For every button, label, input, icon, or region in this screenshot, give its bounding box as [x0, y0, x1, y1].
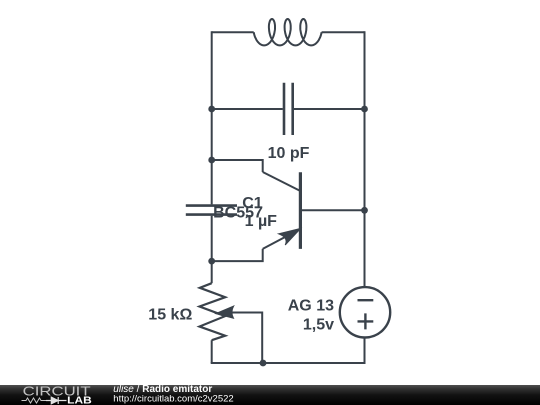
- battery minus sign: [358, 299, 374, 301]
- svg-text:10 pF: 10 pF: [268, 145, 310, 162]
- wire emitter to left rail: [212, 249, 263, 261]
- node dot base: [361, 207, 368, 214]
- logo resistor zigzag: [22, 398, 47, 403]
- wire top-left: from inductor left to left rail: [212, 31, 254, 33]
- wire right rail upper (top corner to battery top): [364, 31, 366, 287]
- node dot emitter: [208, 258, 215, 265]
- svg-text:1,5v: 1,5v: [303, 317, 334, 334]
- svg-text:http://circuitlab.com/c2v2522: http://circuitlab.com/c2v2522: [113, 393, 233, 404]
- potentiometer wiper wire: [232, 313, 262, 364]
- footer bar: [0, 385, 540, 405]
- battery plus sign: [358, 313, 374, 329]
- svg-text:LAB: LAB: [67, 394, 92, 405]
- transistor Q1 emitter arrow: [279, 228, 301, 245]
- svg-text:AG 13: AG 13: [288, 297, 334, 314]
- transistor Q1 base wire to right rail: [300, 209, 364, 211]
- wire left rail mid (C1 bottom plate to resistor top): [211, 216, 213, 283]
- wire top-right: inductor right to right rail: [322, 31, 365, 33]
- svg-text:1 µF: 1 µF: [245, 213, 278, 230]
- transistor Q1 bar: [299, 172, 302, 249]
- inductor L1: [254, 19, 322, 45]
- node dot bottom wiper junction: [260, 360, 267, 367]
- logo diode: [46, 397, 67, 404]
- wire collector to left rail: [212, 160, 263, 172]
- node dot right cap row: [361, 106, 368, 113]
- wire bottom (bottom-left corner to bottom-right corner): [211, 362, 366, 364]
- capacitor C1 plates: [186, 206, 237, 215]
- potentiometer wiper arrowhead: [216, 306, 234, 318]
- capacitor C2 10pF plates: [284, 83, 293, 135]
- wire right rail lower (battery bottom to bottom corner): [364, 338, 366, 364]
- node dot left cap row: [208, 106, 215, 113]
- resistor R1 zigzag (potentiometer body): [200, 283, 226, 340]
- wire cap row left (left rail to 10pF left plate): [212, 108, 283, 110]
- svg-text:15 kΩ: 15 kΩ: [148, 307, 192, 324]
- wire cap row right (10pF right plate to right rail): [294, 108, 365, 110]
- transistor Q1 emitter diagonal: [263, 229, 301, 249]
- wire left rail upper (top corner down to C1 top plate): [211, 31, 213, 204]
- battery V1 circle: [340, 287, 390, 337]
- resistor R1 bottom lead: [211, 340, 213, 363]
- node dot collector: [208, 157, 215, 164]
- transistor Q1 collector diagonal: [263, 172, 301, 191]
